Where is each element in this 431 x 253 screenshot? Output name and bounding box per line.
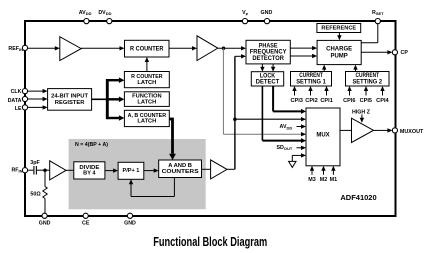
svg-text:VP: VP [242,10,249,16]
svg-text:RSET: RSET [372,10,384,16]
svg-text:LATCH: LATCH [137,119,156,125]
svg-text:CPI2: CPI2 [305,98,317,104]
svg-text:CE: CE [82,220,90,226]
svg-text:Functional Block Diagram: Functional Block Diagram [153,235,267,249]
svg-text:AVDD: AVDD [280,124,293,130]
svg-text:SDOUT: SDOUT [276,145,292,151]
svg-text:CPI6: CPI6 [343,98,355,104]
svg-text:LATCH: LATCH [137,80,156,86]
svg-text:SETTING 1: SETTING 1 [296,78,326,85]
svg-text:REFIN: REFIN [8,46,23,52]
svg-text:CLK: CLK [11,89,22,95]
svg-text:50Ω: 50Ω [30,192,41,198]
svg-text:HIGH Z: HIGH Z [352,110,371,116]
svg-text:3pF: 3pF [30,160,40,166]
svg-text:LATCH: LATCH [137,99,156,105]
svg-text:LE: LE [15,106,22,112]
svg-text:COUNTERS: COUNTERS [162,169,199,175]
svg-text:DETECT: DETECT [256,79,280,86]
svg-text:CP: CP [401,50,409,56]
svg-text:CHARGE: CHARGE [326,47,352,53]
svg-text:CPI5: CPI5 [360,98,372,104]
svg-text:AVDD: AVDD [79,10,92,16]
svg-text:MUX: MUX [316,133,329,139]
svg-text:R COUNTER: R COUNTER [130,45,164,52]
svg-text:MUXOUT: MUXOUT [400,129,424,135]
svg-text:GND: GND [39,220,51,226]
svg-text:CPI3: CPI3 [290,98,302,104]
svg-text:DETECTOR: DETECTOR [252,55,284,62]
svg-text:GND: GND [261,10,273,16]
svg-text:CPI4: CPI4 [376,98,389,104]
svg-text:M2: M2 [320,177,328,183]
svg-text:RFIN: RFIN [11,167,22,173]
svg-text:PUMP: PUMP [330,53,347,59]
svg-text:GND: GND [124,220,136,226]
svg-text:ADF41020: ADF41020 [340,193,376,202]
svg-text:24-BIT INPUT: 24-BIT INPUT [51,94,88,100]
svg-text:DVDD: DVDD [98,10,111,16]
svg-text:CPI1: CPI1 [320,98,332,104]
svg-text:BY 4: BY 4 [83,171,96,177]
svg-text:REFERENCE: REFERENCE [321,25,356,31]
svg-text:M1: M1 [330,177,338,183]
svg-text:SETTING 2: SETTING 2 [353,78,383,85]
svg-text:M3: M3 [308,177,316,183]
svg-text:P/P+ 1: P/P+ 1 [122,168,139,174]
svg-text:REGISTER: REGISTER [55,100,85,106]
svg-text:DATA: DATA [8,98,22,104]
svg-text:N = 4(BP + A): N = 4(BP + A) [75,142,108,148]
